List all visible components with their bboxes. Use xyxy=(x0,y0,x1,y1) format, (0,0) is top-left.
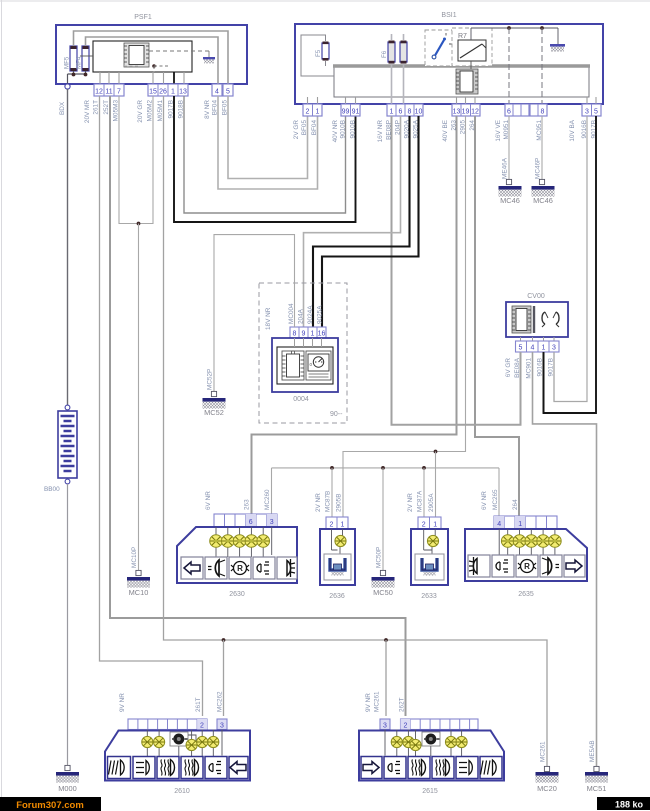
2633 bulb xyxy=(424,529,439,554)
2635 bulb stubs xyxy=(499,529,555,557)
BSI1 pin stubs xyxy=(308,97,597,104)
svg-text:4: 4 xyxy=(531,345,535,352)
PSF1 internal bus wire from MF4 to pin 4 xyxy=(86,37,219,84)
instrument cluster 0004 dashed boundary xyxy=(259,283,347,423)
2630 icon R indicator xyxy=(229,557,251,579)
svg-text:19: 19 xyxy=(462,109,470,116)
svg-text:10: 10 xyxy=(415,109,423,116)
bulb D1 xyxy=(142,736,153,747)
wire F5 top loop into strip xyxy=(301,35,334,76)
svg-text:3: 3 xyxy=(270,519,274,526)
2630 icon side lamp xyxy=(253,557,275,579)
svg-text:3: 3 xyxy=(552,345,556,352)
svg-text:R7: R7 xyxy=(458,33,467,40)
svg-text:2635: 2635 xyxy=(518,591,534,598)
svg-text:2610: 2610 xyxy=(174,788,190,795)
svg-text:3: 3 xyxy=(220,723,224,730)
svg-text:1: 1 xyxy=(341,522,345,529)
svg-text:8V NR: 8V NR xyxy=(204,100,211,119)
wire 9018B PSF1 to BSI1 xyxy=(184,96,346,213)
PSF1 internal IC U1 xyxy=(124,43,149,67)
svg-text:6V NR: 6V NR xyxy=(481,491,488,510)
2615 icon right arrow xyxy=(361,757,382,779)
svg-text:13: 13 xyxy=(453,109,461,116)
wire 2905 BSI1 to 2636/2633 xyxy=(343,116,466,517)
svg-text:M000: M000 xyxy=(58,784,77,793)
svg-text:9: 9 xyxy=(302,331,306,338)
bulb L5 xyxy=(257,535,270,548)
wire F6a column through strip to pin 1 xyxy=(391,34,393,104)
CV00 pin stubs xyxy=(521,337,555,341)
bulb L2 xyxy=(222,535,235,548)
wire BDX from PSF1 to battery xyxy=(67,89,69,405)
svg-text:26: 26 xyxy=(159,89,167,96)
body control unit BSI1 xyxy=(295,12,603,104)
svg-text:5: 5 xyxy=(226,89,230,96)
svg-text:MC87A: MC87A xyxy=(417,490,424,512)
terminal MC50 xyxy=(380,570,385,575)
node junction M05 xyxy=(137,222,141,226)
svg-text:2905A: 2905A xyxy=(428,493,435,512)
PSF1 connector pin row 15|26|1|13 xyxy=(148,84,188,96)
CV00 pin5 stub to BE08 wire xyxy=(520,352,522,425)
svg-text:4: 4 xyxy=(497,521,501,528)
2615 icon fog-right xyxy=(480,757,502,779)
PSF1 internal wire fuse bottoms to BDX terminal xyxy=(68,71,88,84)
svg-text:264: 264 xyxy=(512,499,519,510)
svg-text:1: 1 xyxy=(171,89,175,96)
bulb D2 xyxy=(154,736,165,747)
svg-text:6: 6 xyxy=(249,519,253,526)
svg-text:5: 5 xyxy=(519,345,523,352)
wire F5 bottom into strip xyxy=(325,61,327,66)
2615 icon side lamp xyxy=(384,757,406,779)
terminal MC20 xyxy=(544,766,549,771)
2635 pin row xyxy=(494,516,557,529)
node junction MC87A xyxy=(422,466,426,470)
svg-text:MC20: MC20 xyxy=(537,784,557,793)
bulb R4 xyxy=(537,535,550,548)
wire M05M1 ground bus xyxy=(164,96,548,766)
svg-text:3: 3 xyxy=(383,723,387,730)
CV00 internal divider xyxy=(533,306,535,333)
svg-text:18V NR: 18V NR xyxy=(265,307,272,330)
svg-text:13: 13 xyxy=(179,89,187,96)
2636 bulb xyxy=(332,529,347,554)
2615 pin row xyxy=(401,719,479,730)
BSI1 internal connector strip xyxy=(333,66,590,97)
wire 9016B BSI1 pin3 to CV00 xyxy=(554,116,587,402)
svg-text:PSF1: PSF1 xyxy=(134,14,152,21)
svg-text:MC50P: MC50P xyxy=(376,547,383,568)
node junction MC50P xyxy=(381,466,385,470)
0004 pin stubs xyxy=(295,338,322,347)
wire MC50P drop to ground xyxy=(382,468,384,570)
BSI1 pin row 6 xyxy=(505,104,529,116)
CV00 pin1 stub black xyxy=(543,352,545,413)
svg-text:8: 8 xyxy=(293,331,297,338)
bulb D4 xyxy=(197,736,208,747)
svg-text:2: 2 xyxy=(422,522,426,529)
ground M000 xyxy=(56,772,79,793)
2610 pin 3 box xyxy=(217,719,227,730)
CV00 pin row 5|4|1|3 xyxy=(516,341,560,352)
2615 icon high beam xyxy=(408,757,430,779)
wire BF04 PSF1 to BSI1 xyxy=(218,96,318,189)
svg-text:MC46P: MC46P xyxy=(535,158,542,179)
BSI1 pin row 3|5 xyxy=(582,104,601,116)
bulb R5 xyxy=(549,535,562,548)
svg-text:9024A: 9024A xyxy=(307,305,314,324)
svg-text:MC261: MC261 xyxy=(374,691,381,712)
svg-text:MC87B: MC87B xyxy=(325,491,332,512)
bulb E2 xyxy=(403,736,414,747)
svg-text:91: 91 xyxy=(352,109,360,116)
PSF1 internal bus wire from MF5 to pin 5 xyxy=(74,31,229,84)
svg-text:MC50: MC50 xyxy=(373,588,393,597)
2610 icon low beam xyxy=(181,757,203,779)
ground MC51 xyxy=(585,772,608,793)
wire 264 BSI1 to 2635 (thick) xyxy=(475,116,519,516)
svg-text:6V NR: 6V NR xyxy=(205,491,212,510)
svg-text:12: 12 xyxy=(95,89,103,96)
wire 261T xyxy=(100,96,203,716)
wire MC87B drop to 2636 xyxy=(331,468,333,517)
2610 icon fog-left xyxy=(108,757,131,779)
svg-text:1: 1 xyxy=(542,345,546,352)
svg-text:2615: 2615 xyxy=(422,788,438,795)
ground MC50 xyxy=(372,577,395,597)
fog lamp connector 2636 xyxy=(320,529,355,600)
node junction MC261 xyxy=(384,638,388,642)
bulb D5 xyxy=(208,736,219,747)
lamp unit connector 2630 xyxy=(177,527,297,598)
wire MC265 drop to 2635 pin4 xyxy=(498,468,500,516)
wire MC87A drop to 2633 xyxy=(423,468,425,517)
wire relay to internal IC xyxy=(470,61,472,69)
wire MC004 to ground MC52 xyxy=(214,235,295,391)
2610 icon left arrow xyxy=(229,757,248,779)
wire M0951 column dash through strip xyxy=(508,28,510,104)
CV00 internal stalk contacts xyxy=(542,312,559,327)
svg-text:6: 6 xyxy=(399,109,403,116)
svg-text:8: 8 xyxy=(408,109,412,116)
2633 icon trailer xyxy=(415,554,444,580)
svg-text:16: 16 xyxy=(318,331,326,338)
svg-text:2V NR: 2V NR xyxy=(315,493,322,512)
svg-text:2: 2 xyxy=(306,109,310,116)
BSI1 pin row 8 xyxy=(530,104,547,116)
wire 204P BSI1 to 0004 xyxy=(304,116,401,327)
2615 icon low beam xyxy=(432,757,454,779)
2635 icon park lamp xyxy=(468,555,490,577)
svg-text:204A: 204A xyxy=(298,308,305,324)
BSI1 pin row 1|6|8|10 xyxy=(387,104,423,116)
ground MC46 b xyxy=(532,186,555,205)
PSF1 pin stubs to pin boxes xyxy=(100,72,184,84)
node junction 2905A xyxy=(434,450,438,454)
2635 icon headlamp-right xyxy=(540,555,562,577)
wire MC260 ground bus xyxy=(272,467,500,469)
battery BB00 xyxy=(44,405,77,493)
wire MC261 drop to 2615 xyxy=(385,640,387,716)
svg-text:99: 99 xyxy=(342,109,350,116)
svg-text:2: 2 xyxy=(200,723,204,730)
fuse/relay box PSF1 xyxy=(56,14,247,84)
2630 pin row xyxy=(214,514,277,527)
svg-text:40V NR: 40V NR xyxy=(332,120,339,143)
fuse F6a xyxy=(381,41,395,64)
wire battery to ground M000 xyxy=(67,484,69,765)
svg-text:2: 2 xyxy=(330,522,334,529)
svg-text:2630: 2630 xyxy=(229,591,245,598)
BSI1 internal ground symbol xyxy=(550,28,565,52)
bulb R1 xyxy=(501,535,514,548)
bulb D3 xyxy=(186,739,197,750)
2610 icon lamp lines xyxy=(133,757,155,779)
svg-text:16V VE: 16V VE xyxy=(495,120,502,142)
2630 icon headlamp-left xyxy=(205,557,227,579)
bulb R2 xyxy=(513,535,526,548)
svg-text:MC260: MC260 xyxy=(264,489,271,510)
fog lamp connector 2633 xyxy=(411,529,448,600)
svg-text:1: 1 xyxy=(311,331,315,338)
bulb E3 xyxy=(410,739,421,750)
wire BE08P BSI1 to CV00 (thick) xyxy=(392,116,521,425)
svg-text:MC51: MC51 xyxy=(587,784,607,793)
svg-text:2: 2 xyxy=(404,723,408,730)
headlamp unit connector 2610 xyxy=(105,731,250,796)
wire MC262 drop to 2610 xyxy=(223,640,225,716)
BSI1 internal IC U2 xyxy=(456,69,478,94)
headlamp unit connector 2615 xyxy=(359,731,504,796)
svg-text:2636: 2636 xyxy=(329,593,345,600)
node dot bus-MC951 xyxy=(540,26,544,30)
bulb L1 xyxy=(210,535,223,548)
terminal MC10 xyxy=(136,570,141,575)
svg-text:MC52: MC52 xyxy=(204,408,224,417)
wire 9020A BSI1 to 0004 (black) xyxy=(313,116,410,327)
fuse MF4 xyxy=(76,46,90,71)
svg-text:MC52P: MC52P xyxy=(207,369,214,390)
svg-text:9025A: 9025A xyxy=(317,305,324,324)
svg-text:Forum307.com: Forum307.com xyxy=(16,800,84,811)
BSI1 pin row 13|19|12 xyxy=(452,104,480,116)
fuse MF5 xyxy=(64,46,78,71)
svg-text:MC46: MC46 xyxy=(533,196,553,205)
svg-text:CV00: CV00 xyxy=(527,293,545,300)
svg-text:2V GR: 2V GR xyxy=(293,120,300,140)
svg-text:5: 5 xyxy=(594,109,598,116)
wire MC10P to ground xyxy=(138,224,140,571)
bulb R3 xyxy=(525,535,538,548)
svg-text:90--: 90-- xyxy=(330,411,343,418)
2630 icon left-arrow xyxy=(181,557,203,579)
switch S1 dashed box xyxy=(425,30,465,66)
instrument cluster 0004 body xyxy=(272,338,338,403)
0004 internal IC xyxy=(282,351,304,380)
svg-text:MF4: MF4 xyxy=(76,56,83,69)
PSF1 internal jog wire to module xyxy=(80,55,93,57)
svg-text:2905B: 2905B xyxy=(336,494,343,512)
BSI1 pin row 2|1 xyxy=(303,104,322,116)
svg-text:9010B: 9010B xyxy=(350,120,357,138)
ground MC52 xyxy=(203,398,226,417)
svg-text:1: 1 xyxy=(390,109,394,116)
svg-text:1: 1 xyxy=(433,522,437,529)
wire MC951 to ground MC46 xyxy=(541,116,543,179)
PSF1 connector pin 4 xyxy=(212,84,222,96)
svg-text:MC901: MC901 xyxy=(526,358,533,379)
svg-text:9V NR: 9V NR xyxy=(365,693,372,712)
svg-text:15: 15 xyxy=(149,89,157,96)
terminal MC46P xyxy=(539,179,544,184)
terminal M000 xyxy=(65,765,70,770)
2635 icon right-arrow xyxy=(564,555,585,577)
2636 pin row 2|1 xyxy=(326,517,348,529)
wire 9025A BSI1 to 0004 (black) xyxy=(322,116,419,327)
PSF1 internal node dot xyxy=(124,64,168,72)
2615 bulb stubs xyxy=(385,730,462,757)
bulb E5 xyxy=(456,736,467,747)
svg-text:BB00: BB00 xyxy=(44,486,60,493)
CV00 pin3 stub xyxy=(553,352,555,402)
BSI1 internal top bus wire xyxy=(471,27,558,29)
2636 icon trailer xyxy=(324,554,351,580)
svg-text:BSI1: BSI1 xyxy=(441,12,456,19)
motor M1 xyxy=(170,732,196,746)
wire 263 BSI1 to 2630 (thick) xyxy=(252,116,457,514)
svg-text:11: 11 xyxy=(105,89,112,96)
2630 icon park lamp xyxy=(277,557,297,579)
PSF1 internal control module box xyxy=(93,41,192,72)
terminal MC52P xyxy=(211,391,216,396)
steering column switch CV00 xyxy=(506,293,568,337)
svg-text:F6: F6 xyxy=(381,50,388,58)
2610 icon high beam xyxy=(157,757,179,779)
svg-text:2V NR: 2V NR xyxy=(407,493,414,512)
0004 pin row 8|9|1|16 xyxy=(290,327,326,338)
2610 icon side lamp xyxy=(205,757,227,779)
ground MC46 a xyxy=(499,186,522,205)
node dot bus-M0951 xyxy=(507,26,511,30)
PSF1 internal dashed wire to ground xyxy=(149,50,209,52)
2635 icon R indicator xyxy=(516,555,538,577)
node junction MC262 xyxy=(222,638,226,642)
node junction MC87B xyxy=(330,466,334,470)
svg-text:MC46: MC46 xyxy=(500,196,520,205)
svg-text:2633: 2633 xyxy=(421,593,437,600)
svg-text:188 ko: 188 ko xyxy=(615,800,644,810)
svg-text:1: 1 xyxy=(518,521,522,528)
2615 pin 3 box xyxy=(380,719,390,730)
wire M05M2 xyxy=(139,96,154,224)
svg-text:6: 6 xyxy=(507,109,511,116)
wire 9017B PSF1 to BSI1 (black) xyxy=(174,96,356,222)
2610 bulb stubs xyxy=(147,730,222,757)
svg-text:MC261: MC261 xyxy=(540,741,547,762)
watermark Forum307.com xyxy=(0,797,101,811)
svg-text:9V NR: 9V NR xyxy=(119,693,126,712)
CV00 internal IC xyxy=(512,306,531,333)
0004 internal gauge xyxy=(306,351,331,380)
wire MC260 drop to 2630 pin3 xyxy=(271,468,273,514)
size tag 188 ko xyxy=(597,797,650,810)
svg-text:ME46A: ME46A xyxy=(502,157,509,179)
svg-text:BF04: BF04 xyxy=(311,120,318,136)
bulb E1 xyxy=(391,736,402,747)
BSI1 pin row 99|91 xyxy=(341,104,360,116)
wire M05M3 xyxy=(119,96,139,224)
svg-text:12: 12 xyxy=(471,109,479,116)
svg-text:3: 3 xyxy=(585,109,589,116)
terminal ME46A xyxy=(506,179,511,184)
PSF1 internal ground symbol xyxy=(203,57,215,63)
svg-text:BF05: BF05 xyxy=(301,120,308,136)
svg-text:4: 4 xyxy=(215,89,219,96)
svg-text:MC10P: MC10P xyxy=(131,547,138,568)
svg-text:MC265: MC265 xyxy=(492,489,499,510)
svg-text:6V GR: 6V GR xyxy=(505,358,512,378)
fuse F6b xyxy=(400,41,407,64)
svg-text:1: 1 xyxy=(316,109,320,116)
lamp unit connector 2635 xyxy=(465,529,587,598)
svg-text:F5: F5 xyxy=(315,49,322,57)
svg-text:BDX: BDX xyxy=(59,101,66,115)
svg-text:ME5AB: ME5AB xyxy=(589,740,596,762)
svg-text:20V GR: 20V GR xyxy=(137,100,144,123)
svg-text:8: 8 xyxy=(541,109,545,116)
terminal MC51 xyxy=(594,766,599,771)
bulb E4 xyxy=(445,736,456,747)
PSF1 connector pin 5 xyxy=(223,84,233,96)
svg-text:20V MR: 20V MR xyxy=(84,100,91,123)
ground MC20 xyxy=(536,772,559,793)
BDX terminal circle on PSF1 xyxy=(65,84,70,89)
svg-text:0004: 0004 xyxy=(293,396,309,403)
svg-text:261T: 261T xyxy=(93,100,100,115)
svg-text:263: 263 xyxy=(244,499,251,510)
ground MC10 xyxy=(127,577,150,597)
relay R7 dashed box xyxy=(452,28,492,66)
wire M0951 to ground MC46 xyxy=(508,116,510,179)
2635 icon side lamp xyxy=(492,555,514,577)
wire BF05 PSF1 to BSI1 xyxy=(228,96,308,179)
wire MC901 CV00 to ground MC51 xyxy=(533,352,597,766)
svg-text:261T: 261T xyxy=(195,697,202,712)
fuse F5 xyxy=(315,42,329,61)
svg-text:40V BE: 40V BE xyxy=(442,120,449,142)
PSF1 connector pin row 12|11|7 xyxy=(94,84,124,96)
svg-text:10V BA: 10V BA xyxy=(569,119,576,141)
wire 9017B BSI1 pin5 to CV00 (black) xyxy=(544,116,597,413)
bulb L3 xyxy=(233,535,246,548)
2615 icon lamp lines xyxy=(456,757,478,779)
2630 bulb stubs xyxy=(216,527,272,557)
motor M2 xyxy=(422,732,440,746)
wire F6b column through strip to pin 6 xyxy=(403,34,405,104)
svg-text:MC10: MC10 xyxy=(129,588,149,597)
svg-text:16V NR: 16V NR xyxy=(377,120,384,143)
wire 262T xyxy=(110,96,406,716)
svg-text:MF5: MF5 xyxy=(64,56,71,69)
svg-text:9016B: 9016B xyxy=(537,358,544,376)
svg-text:262T: 262T xyxy=(399,697,406,712)
2633 pin row 2|1 xyxy=(418,517,441,529)
svg-text:MC262: MC262 xyxy=(217,691,224,712)
svg-text:9010B: 9010B xyxy=(340,120,347,138)
bulb L4 xyxy=(245,535,258,548)
